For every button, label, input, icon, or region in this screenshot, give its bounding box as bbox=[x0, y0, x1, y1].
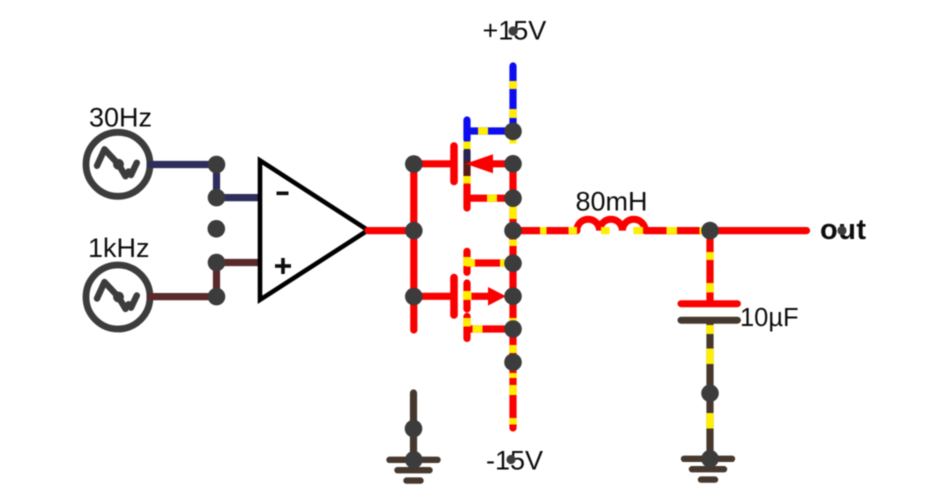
svg-text:30Hz: 30Hz bbox=[89, 103, 152, 133]
svg-text:10µF: 10µF bbox=[740, 304, 799, 332]
svg-text:80mH: 80mH bbox=[576, 187, 648, 217]
svg-text:1kHz: 1kHz bbox=[88, 233, 150, 263]
